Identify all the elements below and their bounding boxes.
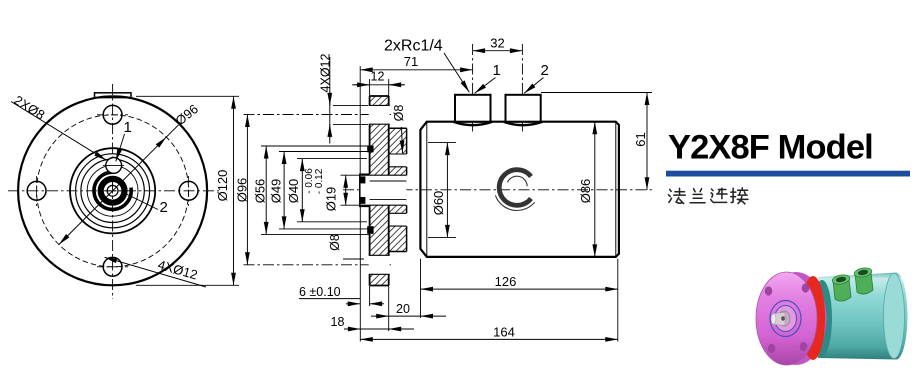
svg-text:6 ±0.10: 6 ±0.10 [299, 285, 341, 299]
svg-text:Ø19: Ø19 [324, 187, 339, 212]
svg-text:61: 61 [633, 132, 648, 146]
svg-text:Ø8: Ø8 [328, 234, 342, 251]
svg-text:Ø40: Ø40 [286, 179, 301, 204]
svg-text:2XØ8: 2XØ8 [11, 92, 47, 122]
svg-text:Ø49: Ø49 [269, 179, 284, 204]
svg-text:2: 2 [541, 62, 549, 79]
svg-text:Ø96: Ø96 [235, 178, 250, 203]
svg-text:4XØ12: 4XØ12 [319, 53, 333, 92]
svg-text:12: 12 [371, 70, 385, 84]
svg-text:1: 1 [493, 62, 501, 79]
svg-text:Y2X8F Model: Y2X8F Model [668, 129, 873, 167]
svg-text:Ø96: Ø96 [172, 101, 201, 128]
svg-text:32: 32 [490, 36, 504, 51]
svg-text:Ø120: Ø120 [215, 170, 230, 202]
svg-text:20: 20 [396, 302, 410, 316]
svg-text:Ø60: Ø60 [431, 191, 446, 216]
svg-text:126: 126 [495, 274, 517, 289]
svg-text:164: 164 [493, 325, 515, 340]
svg-text:Ø86: Ø86 [578, 179, 593, 204]
svg-text:Ø8: Ø8 [392, 105, 406, 122]
svg-text:1: 1 [124, 119, 132, 136]
svg-text:71: 71 [404, 54, 418, 69]
svg-text:2: 2 [160, 199, 168, 216]
svg-text:2xRc1/4: 2xRc1/4 [384, 38, 443, 55]
svg-text:Ø56: Ø56 [253, 179, 268, 204]
svg-text:18: 18 [331, 315, 345, 329]
svg-text:- 0.12: - 0.12 [314, 168, 325, 194]
